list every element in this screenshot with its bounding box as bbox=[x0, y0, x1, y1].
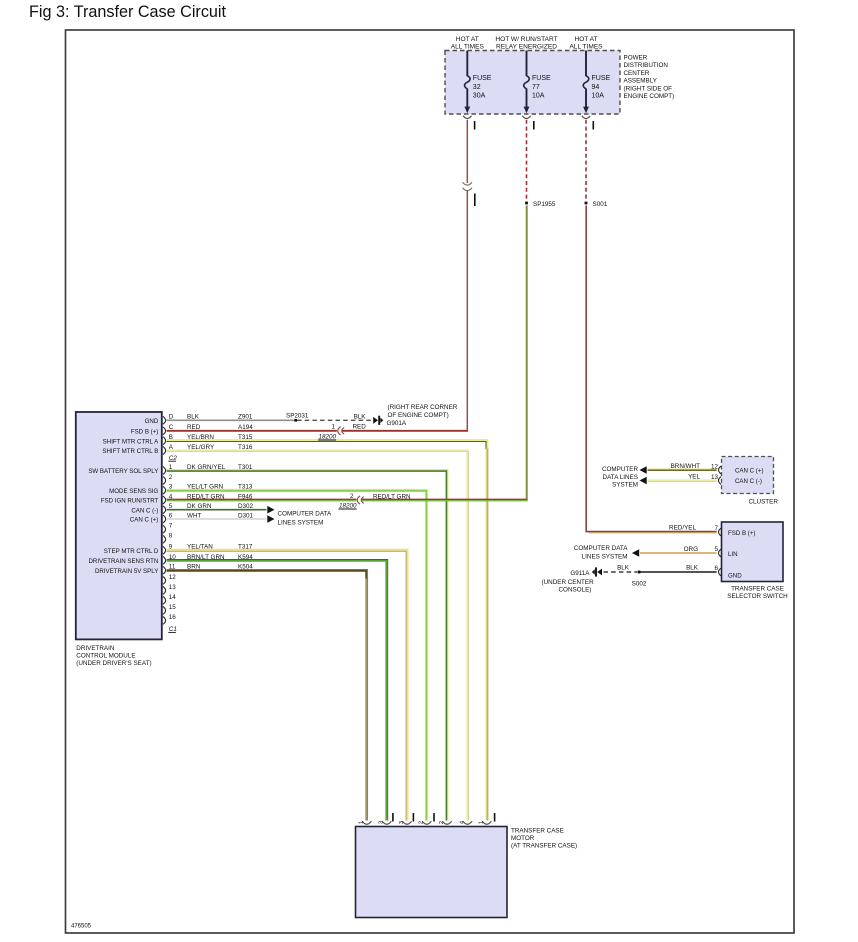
svg-text:DISTRIBUTION: DISTRIBUTION bbox=[624, 62, 669, 69]
svg-text:SW BATTERY SOL SPLY: SW BATTERY SOL SPLY bbox=[88, 468, 158, 475]
svg-text:S001: S001 bbox=[593, 201, 608, 208]
svg-text:MODE SENS SIG: MODE SENS SIG bbox=[109, 488, 158, 495]
svg-text:RED: RED bbox=[353, 423, 367, 430]
svg-text:HOT AT: HOT AT bbox=[574, 36, 597, 43]
svg-text:ASSEMBLY: ASSEMBLY bbox=[624, 78, 658, 85]
svg-text:77: 77 bbox=[532, 84, 540, 91]
svg-text:94: 94 bbox=[592, 84, 600, 91]
svg-text:LINES SYSTEM: LINES SYSTEM bbox=[582, 554, 628, 561]
svg-text:BLK: BLK bbox=[686, 565, 699, 572]
svg-text:(UNDER CENTER: (UNDER CENTER bbox=[542, 579, 595, 586]
svg-text:FUSE: FUSE bbox=[592, 75, 611, 82]
svg-text:ALL TIMES: ALL TIMES bbox=[451, 44, 485, 51]
svg-text:(UNDER DRIVER'S SEAT): (UNDER DRIVER'S SEAT) bbox=[76, 660, 151, 667]
svg-text:FSD IGN RUN/STRT: FSD IGN RUN/STRT bbox=[101, 498, 159, 505]
svg-text:14: 14 bbox=[169, 594, 177, 601]
svg-text:CAN C (-): CAN C (-) bbox=[131, 507, 158, 514]
svg-text:GND: GND bbox=[145, 418, 159, 425]
svg-text:6: 6 bbox=[714, 565, 718, 572]
svg-text:GND: GND bbox=[728, 572, 742, 579]
svg-text:SP1955: SP1955 bbox=[533, 201, 556, 208]
svg-text:1: 1 bbox=[331, 423, 335, 430]
svg-text:ENGINE COMPT): ENGINE COMPT) bbox=[624, 93, 675, 100]
svg-text:SHIFT MTR CTRL A: SHIFT MTR CTRL A bbox=[103, 438, 160, 445]
svg-text:STEP MTR CTRL D: STEP MTR CTRL D bbox=[104, 548, 159, 555]
svg-text:SHIFT MTR CTRL B: SHIFT MTR CTRL B bbox=[102, 448, 158, 455]
svg-text:CAN C (+): CAN C (+) bbox=[130, 517, 159, 524]
svg-text:G901A: G901A bbox=[387, 420, 407, 427]
svg-text:2: 2 bbox=[350, 493, 354, 500]
svg-text:FUSE: FUSE bbox=[473, 75, 492, 82]
svg-text:16: 16 bbox=[169, 614, 177, 621]
svg-text:MOTOR: MOTOR bbox=[511, 835, 535, 842]
svg-text:ALL TIMES: ALL TIMES bbox=[569, 44, 603, 51]
svg-text:FSD B (+): FSD B (+) bbox=[728, 530, 755, 537]
svg-text:(AT TRANSFER CASE): (AT TRANSFER CASE) bbox=[511, 843, 577, 850]
svg-text:DRIVETRAIN 5V SPLY: DRIVETRAIN 5V SPLY bbox=[95, 568, 158, 575]
svg-text:3: 3 bbox=[399, 821, 405, 824]
svg-text:CAN C (-): CAN C (-) bbox=[735, 478, 762, 485]
svg-text:2: 2 bbox=[419, 821, 425, 824]
svg-text:POWER: POWER bbox=[624, 55, 648, 62]
svg-text:COMPUTER: COMPUTER bbox=[602, 466, 638, 473]
svg-text:10A: 10A bbox=[592, 93, 605, 100]
svg-text:FUSE: FUSE bbox=[532, 75, 551, 82]
svg-text:CONSOLE): CONSOLE) bbox=[559, 587, 592, 594]
svg-text:10A: 10A bbox=[532, 93, 545, 100]
svg-text:RED/YEL: RED/YEL bbox=[669, 525, 696, 532]
svg-text:CLUSTER: CLUSTER bbox=[749, 499, 779, 506]
svg-text:3: 3 bbox=[379, 821, 385, 824]
svg-text:SP2031: SP2031 bbox=[286, 412, 309, 419]
svg-text:13: 13 bbox=[169, 584, 177, 591]
svg-text:HOT AT: HOT AT bbox=[456, 36, 479, 43]
svg-text:FSD B (+): FSD B (+) bbox=[131, 428, 158, 435]
svg-text:BRN/WHT: BRN/WHT bbox=[671, 463, 701, 470]
svg-text:TRANSFER CASE: TRANSFER CASE bbox=[731, 586, 784, 593]
svg-text:OF ENGINE COMPT): OF ENGINE COMPT) bbox=[388, 412, 449, 419]
svg-text:RED: RED bbox=[187, 424, 201, 431]
svg-text:RELAY ENERGIZED: RELAY ENERGIZED bbox=[496, 44, 557, 51]
svg-text:DRIVETRAIN SENS RTN: DRIVETRAIN SENS RTN bbox=[88, 558, 158, 565]
svg-text:SELECTOR SWITCH: SELECTOR SWITCH bbox=[727, 593, 788, 600]
svg-text:(RIGHT SIDE OF: (RIGHT SIDE OF bbox=[624, 85, 673, 92]
svg-text:A194: A194 bbox=[238, 424, 253, 431]
svg-text:5: 5 bbox=[714, 546, 718, 553]
svg-text:LIN: LIN bbox=[728, 551, 738, 558]
svg-text:DATA LINES: DATA LINES bbox=[603, 474, 638, 481]
svg-text:SYSTEM: SYSTEM bbox=[612, 482, 638, 489]
svg-text:7: 7 bbox=[714, 525, 718, 532]
svg-text:12: 12 bbox=[169, 574, 177, 581]
svg-text:15: 15 bbox=[169, 604, 177, 611]
svg-text:CENTER: CENTER bbox=[624, 70, 650, 77]
svg-text:Fig 3: Transfer Case Circuit: Fig 3: Transfer Case Circuit bbox=[29, 3, 227, 21]
svg-text:TRANSFER CASE: TRANSFER CASE bbox=[511, 828, 564, 835]
svg-text:COMPUTER DATA: COMPUTER DATA bbox=[574, 545, 628, 552]
svg-text:C: C bbox=[169, 424, 174, 431]
svg-text:RED/LT GRN: RED/LT GRN bbox=[373, 493, 411, 500]
svg-text:G911A: G911A bbox=[570, 570, 590, 577]
svg-text:BLK: BLK bbox=[617, 565, 630, 572]
svg-text:ORG: ORG bbox=[684, 546, 698, 553]
svg-text:32: 32 bbox=[473, 84, 481, 91]
svg-text:HOT W/ RUN/START: HOT W/ RUN/START bbox=[495, 36, 557, 43]
svg-text:LINES SYSTEM: LINES SYSTEM bbox=[278, 520, 324, 527]
svg-text:1: 1 bbox=[479, 821, 485, 824]
svg-text:YEL: YEL bbox=[688, 473, 700, 480]
svg-text:1: 1 bbox=[359, 821, 365, 824]
svg-text:(RIGHT REAR CORNER: (RIGHT REAR CORNER bbox=[388, 404, 458, 411]
svg-text:CAN C (+): CAN C (+) bbox=[735, 468, 764, 475]
svg-text:DRIVETRAIN: DRIVETRAIN bbox=[76, 645, 115, 652]
svg-text:8: 8 bbox=[169, 533, 173, 540]
svg-text:30A: 30A bbox=[473, 93, 486, 100]
svg-text:S002: S002 bbox=[632, 581, 647, 588]
svg-text:COMPUTER DATA: COMPUTER DATA bbox=[278, 511, 332, 518]
svg-text:2: 2 bbox=[169, 474, 173, 481]
svg-text:BLK: BLK bbox=[354, 414, 367, 421]
svg-text:CONTROL MODULE: CONTROL MODULE bbox=[76, 653, 135, 660]
svg-text:7: 7 bbox=[169, 523, 173, 530]
svg-text:2: 2 bbox=[439, 821, 445, 824]
svg-text:476505: 476505 bbox=[71, 924, 92, 930]
